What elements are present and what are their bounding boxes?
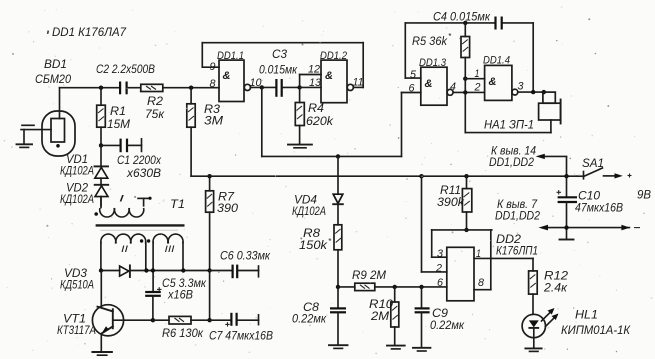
switch SA1: [577, 168, 632, 179]
label VT1: [57, 312, 96, 338]
ground tube: [17, 130, 33, 148]
capacitor C2: [120, 82, 127, 95]
diode VD2: [95, 178, 109, 206]
label R2: [145, 94, 165, 121]
svg-text:2: 2: [435, 263, 442, 275]
label C9: [430, 306, 465, 332]
label R3: [204, 102, 223, 128]
resistor R1: [97, 88, 106, 146]
transistor VT1: [92, 271, 152, 352]
capacitor C8: [330, 287, 346, 345]
svg-text:R1: R1: [110, 104, 126, 118]
label R6: [162, 326, 204, 340]
svg-text:КД102А: КД102А: [60, 164, 94, 178]
label K vyv 7: [495, 197, 540, 223]
label VD4: [292, 193, 326, 219]
label DD2: [496, 232, 538, 258]
pin 3: [518, 81, 525, 93]
svg-text:R6 130к: R6 130к: [162, 326, 204, 340]
svg-text:КД102А: КД102А: [60, 192, 94, 206]
svg-text:&: &: [489, 76, 497, 88]
svg-text:HL1: HL1: [575, 308, 598, 322]
svg-text:КТ3117А: КТ3117А: [57, 323, 96, 337]
pin 2: [474, 82, 481, 94]
svg-text:DD1.3: DD1.3: [419, 57, 447, 69]
ground C8: [329, 345, 348, 348]
wire pin1 pin2 node: [453, 77, 484, 133]
pin 4: [450, 81, 456, 93]
label C2: [96, 62, 155, 76]
label DD1.3: [419, 57, 447, 69]
label VD2: [60, 181, 94, 207]
wire tube cathode: [21, 125, 51, 129]
svg-text:C7 47мкх16В: C7 47мкх16В: [209, 329, 273, 343]
led HL1: [522, 308, 558, 348]
svg-text:DD1.4: DD1.4: [483, 55, 510, 67]
ground R4: [288, 145, 312, 148]
label 9V: [637, 188, 651, 202]
resistor R4: [295, 87, 304, 144]
pin 1: [475, 68, 480, 80]
diode VD3: [120, 265, 130, 277]
svg-text:3: 3: [437, 248, 444, 260]
resistor R5: [461, 21, 470, 79]
resistor R8: [334, 204, 342, 287]
pin 6: [409, 83, 416, 95]
capacitor C7: [210, 313, 259, 327]
pin 9: [210, 61, 216, 73]
svg-text:47мкх16В: 47мкх16В: [575, 201, 623, 215]
wire to pin14: [536, 154, 569, 179]
node C7: [207, 318, 211, 322]
svg-text:C6 0.33мк: C6 0.33мк: [220, 249, 271, 263]
node VD4 tap: [336, 154, 340, 158]
svg-text:5: 5: [410, 69, 417, 81]
label DD1.1: [217, 50, 244, 62]
capacitor C6: [210, 265, 259, 279]
resistor R6: [153, 316, 210, 324]
wire lower bus: [191, 175, 577, 177]
svg-text:DD1,DD2: DD1,DD2: [489, 155, 534, 169]
wire R7 column lower: [209, 271, 211, 321]
label R9: [352, 268, 386, 282]
label C1: [117, 153, 162, 180]
node R8 bottom: [336, 285, 340, 289]
wire rectified rail: [101, 270, 210, 272]
capacitor C3: [276, 79, 299, 97]
svg-text:BD1: BD1: [44, 57, 67, 71]
svg-text:6: 6: [437, 277, 444, 289]
svg-text:R5 36k: R5 36k: [412, 34, 448, 48]
label R11: [437, 183, 465, 209]
pin 5: [410, 69, 417, 81]
label C8: [292, 300, 327, 326]
svg-text:DD1,DD2: DD1,DD2: [495, 209, 540, 223]
label R5: [412, 32, 452, 48]
svg-text:х16В: х16В: [167, 288, 193, 302]
svg-text:13: 13: [309, 77, 322, 89]
node winding II end: [144, 268, 148, 272]
node winding III end: [181, 268, 185, 272]
pin 2: [435, 263, 442, 275]
svg-text:К176ЛП1: К176ЛП1: [496, 244, 538, 258]
transformer T1 winding II: [101, 234, 146, 270]
svg-text:R2: R2: [147, 94, 163, 108]
node C3 right: [297, 85, 301, 89]
capacitor C10: [557, 176, 578, 239]
wire pins 12 13: [300, 75, 321, 88]
transformer core: [96, 225, 185, 230]
svg-text:НА1 ЗП-1: НА1 ЗП-1: [484, 118, 534, 132]
label SA1: [582, 156, 604, 170]
ground VT1: [92, 352, 112, 355]
resistor R12: [529, 258, 538, 314]
gate DD1.1: [219, 60, 250, 101]
svg-text:4: 4: [450, 81, 456, 93]
pin 8: [478, 277, 485, 289]
svg-text:0.015мк: 0.015мк: [259, 63, 298, 77]
svg-text:8: 8: [478, 277, 485, 289]
label C6: [220, 249, 271, 263]
svg-text:R9 2M: R9 2M: [352, 268, 386, 282]
svg-text:&: &: [425, 78, 433, 90]
wire pin5: [405, 23, 421, 78]
svg-text:3M: 3M: [204, 114, 223, 128]
node pin10: [260, 85, 264, 89]
transformer T1 winding III: [147, 234, 183, 292]
label HL1: [561, 308, 631, 338]
svg-text:2: 2: [474, 82, 481, 94]
svg-text:DD1.2: DD1.2: [320, 50, 347, 62]
label C7: [209, 329, 273, 343]
svg-text:6: 6: [409, 83, 416, 95]
label C3: [259, 47, 298, 77]
svg-text:C2 2.2х500В: C2 2.2х500В: [96, 62, 155, 76]
resistor R9: [338, 283, 447, 290]
pin 10: [250, 77, 263, 89]
label DD1.2: [320, 50, 347, 62]
capacitor C5: [145, 287, 161, 320]
label DD1 type: [47, 25, 127, 39]
node R3 top: [189, 86, 193, 90]
wire upper bus: [262, 87, 421, 156]
node C9: [419, 285, 423, 289]
pin 1: [476, 248, 481, 260]
label HA1: [484, 118, 534, 132]
resistor R3: [187, 88, 195, 177]
label VD3: [60, 266, 94, 292]
svg-text:СБМ20: СБМ20: [35, 72, 71, 86]
label C10: [575, 189, 623, 215]
pin 12: [308, 64, 320, 76]
ground C9: [413, 348, 430, 351]
pin 6: [437, 277, 444, 289]
node C5 tap: [151, 268, 155, 272]
resistor R10: [391, 287, 399, 345]
pin 8: [210, 78, 217, 90]
node R10: [393, 285, 397, 289]
node R1 top: [99, 86, 103, 90]
svg-text:C1 2200х: C1 2200х: [117, 153, 162, 167]
label C5: [162, 276, 207, 302]
gate DD1.4: [485, 65, 518, 100]
label BD1: [35, 57, 71, 86]
svg-text:2M: 2M: [370, 309, 389, 323]
svg-text:III: III: [165, 244, 176, 254]
label R8: [299, 226, 332, 252]
svg-text:1: 1: [476, 248, 481, 260]
wire to pin7 minus: [539, 225, 641, 231]
diode VD4: [333, 156, 343, 204]
label winding II: [121, 244, 129, 254]
wire pin10 out: [251, 86, 277, 88]
sounder HA1: [465, 92, 560, 133]
svg-text:х630В: х630В: [126, 166, 161, 180]
ground R10: [387, 346, 405, 349]
svg-text:DD1 К176ЛА7: DD1 К176ЛА7: [52, 25, 127, 39]
resistor R11: [462, 174, 471, 232]
svg-text:3: 3: [518, 81, 525, 93]
capacitor C1: [101, 139, 142, 153]
wire pin3 out: [518, 90, 546, 94]
svg-text:DD1.1: DD1.1: [217, 50, 244, 62]
pin 3: [437, 248, 444, 260]
transformer T1 winding I: [94, 197, 151, 217]
svg-text:&: &: [325, 70, 333, 82]
svg-text:КД510А: КД510А: [60, 278, 94, 292]
svg-text:620k: 620k: [306, 114, 334, 128]
label R4: [306, 101, 334, 128]
label winding I: [119, 194, 125, 204]
svg-text:КД102А: КД102А: [292, 204, 326, 218]
svg-text:150k: 150k: [299, 238, 328, 252]
resistor R7: [206, 176, 214, 270]
wire feedback DD1.1: [202, 43, 363, 88]
svg-text:15M: 15M: [107, 117, 130, 131]
node R7 rail: [207, 174, 211, 178]
svg-text:C4 0.015мк: C4 0.015мк: [433, 10, 491, 24]
svg-text:Т1: Т1: [170, 197, 185, 211]
label winding III: [165, 244, 176, 254]
label R12: [543, 269, 568, 295]
gate DD1.2: [321, 60, 353, 103]
svg-text:75к: 75к: [145, 107, 165, 121]
svg-text:9В: 9В: [637, 188, 651, 202]
svg-text:8: 8: [210, 78, 217, 90]
label R7: [217, 190, 238, 216]
node C6: [207, 268, 211, 272]
label C4: [433, 10, 491, 24]
wire C4 top: [405, 23, 533, 92]
label R1: [107, 104, 130, 131]
geiger tube BD1: [42, 111, 75, 156]
wire pin2 DD2: [419, 174, 447, 272]
svg-text:12: 12: [308, 64, 320, 76]
chip DD2: [432, 230, 533, 301]
label VD1: [60, 152, 94, 178]
wire tube anode: [59, 88, 61, 119]
label K vyv 14: [489, 144, 536, 170]
svg-text:C3: C3: [272, 47, 287, 61]
svg-text:SA1: SA1: [582, 156, 604, 170]
capacitor C9: [415, 287, 430, 348]
label T1: [170, 197, 185, 211]
svg-text:&: &: [223, 70, 231, 82]
node C1: [99, 143, 103, 147]
pin 11: [353, 77, 364, 89]
capacitor C4: [496, 17, 502, 30]
svg-text:390k: 390k: [437, 195, 465, 209]
wire main top: [60, 87, 220, 89]
node base: [151, 318, 155, 322]
label DD1.4: [483, 55, 510, 67]
svg-text:0.22мк: 0.22мк: [430, 318, 465, 332]
svg-text:0.22мк: 0.22мк: [292, 312, 327, 326]
node collector VD3: [99, 268, 103, 272]
pin 13: [309, 77, 322, 89]
svg-text:КИПМ01А-1К: КИПМ01А-1К: [561, 323, 631, 337]
svg-text:II: II: [121, 244, 129, 254]
ground HL1: [525, 348, 541, 351]
gate DD1.3: [421, 67, 453, 105]
svg-text:2.4к: 2.4к: [543, 281, 568, 295]
svg-text:390: 390: [217, 201, 238, 215]
svg-text:11: 11: [353, 77, 364, 89]
resistor R2: [141, 84, 163, 91]
label R10: [369, 297, 393, 323]
svg-text:1: 1: [475, 68, 480, 80]
diode VD1: [95, 145, 109, 178]
